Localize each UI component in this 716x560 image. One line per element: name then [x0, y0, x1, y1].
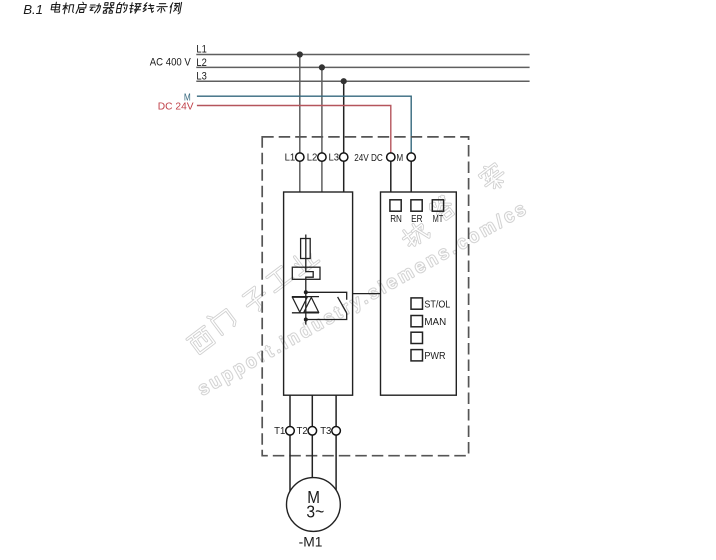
- svg-text:T3: T3: [320, 426, 332, 437]
- svg-text:L1: L1: [285, 153, 296, 164]
- svg-text:T2: T2: [297, 426, 309, 437]
- svg-text:24V DC: 24V DC: [354, 153, 383, 164]
- svg-text:-M1: -M1: [299, 535, 323, 550]
- svg-text:AC 400 V: AC 400 V: [150, 56, 192, 68]
- svg-text:L3: L3: [196, 71, 206, 83]
- svg-text:M: M: [396, 153, 403, 164]
- svg-text:ER: ER: [411, 214, 423, 225]
- svg-text:DC 24V: DC 24V: [158, 101, 194, 113]
- svg-text:L2: L2: [196, 57, 206, 69]
- svg-text:T1: T1: [274, 426, 286, 437]
- svg-text:L2: L2: [307, 153, 318, 164]
- svg-text:3~: 3~: [306, 502, 324, 522]
- svg-text:L1: L1: [196, 44, 206, 56]
- svg-text:B.1: B.1: [23, 2, 43, 17]
- svg-text:MT: MT: [433, 214, 444, 225]
- svg-text:PWR: PWR: [424, 351, 445, 362]
- svg-text:RN: RN: [390, 214, 402, 225]
- svg-text:MAN: MAN: [424, 317, 446, 328]
- svg-text:L3: L3: [329, 153, 340, 164]
- svg-text:ST/OL: ST/OL: [424, 299, 450, 310]
